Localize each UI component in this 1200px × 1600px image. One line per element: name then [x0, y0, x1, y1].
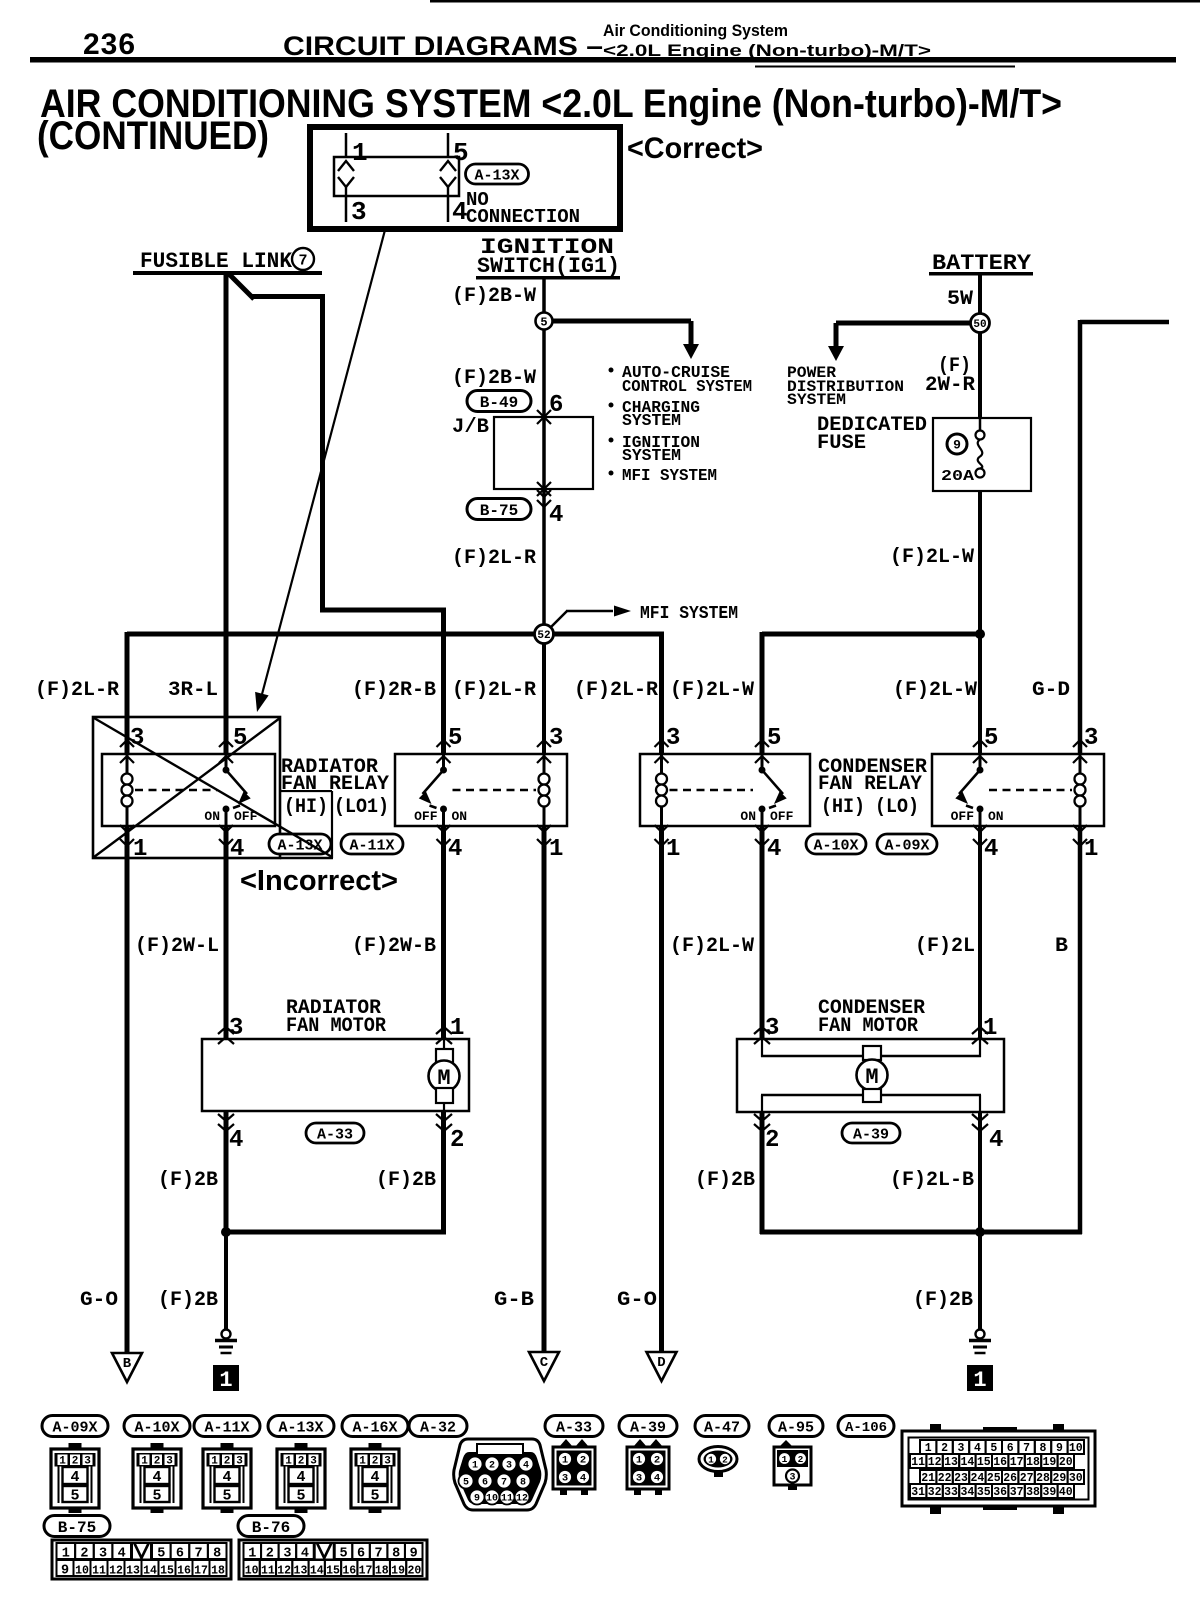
svg-text:CIRCUIT DIAGRAMS –: CIRCUIT DIAGRAMS –: [283, 31, 603, 61]
svg-text:2: 2: [489, 1461, 495, 1472]
bus ignition feed left: [127, 632, 536, 637]
svg-text:2: 2: [72, 1456, 79, 1468]
wire relay3 coil down: [659, 826, 664, 1352]
svg-text:6: 6: [549, 392, 563, 419]
wire battery: [978, 275, 982, 418]
svg-text:27: 27: [1020, 1472, 1034, 1485]
svg-text:4: 4: [549, 502, 563, 529]
svg-text:11: 11: [92, 1564, 106, 1577]
connector A-09X: [42, 1416, 108, 1437]
wire relay1 sw to motor: [224, 826, 229, 1039]
ground symbol: [976, 1330, 985, 1339]
svg-text:ON: ON: [740, 809, 756, 824]
svg-text:2: 2: [798, 1454, 804, 1465]
svg-text:B-75: B-75: [58, 1519, 96, 1537]
svg-text:(F)2L-W: (F)2L-W: [670, 935, 754, 958]
svg-text:1: 1: [666, 836, 680, 863]
svg-text:2: 2: [372, 1456, 379, 1468]
svg-text:OFF: OFF: [770, 809, 794, 824]
svg-text:1: 1: [562, 1455, 568, 1467]
svg-text:16: 16: [342, 1564, 356, 1577]
svg-text:14: 14: [960, 1456, 974, 1469]
svg-text:2: 2: [450, 1127, 464, 1154]
earth reference box 1: [213, 1365, 239, 1391]
svg-text:B: B: [123, 1356, 132, 1372]
svg-text:A-106: A-106: [845, 1420, 887, 1436]
svg-text:14: 14: [310, 1564, 324, 1577]
svg-text:D: D: [657, 1355, 665, 1371]
svg-text:(F)2B: (F)2B: [158, 1169, 218, 1192]
label B-75: [467, 499, 531, 520]
wire relay3 sw to motor: [760, 826, 765, 1039]
svg-text:2: 2: [266, 1547, 274, 1562]
svg-text:6: 6: [357, 1547, 365, 1562]
svg-text:B: B: [1055, 935, 1068, 958]
svg-text:5: 5: [296, 1488, 305, 1505]
svg-text:4: 4: [222, 1469, 231, 1486]
svg-text:9: 9: [1056, 1442, 1063, 1455]
ground symbol: [222, 1330, 231, 1339]
svg-text:(LO1): (LO1): [334, 796, 389, 819]
svg-text:12: 12: [928, 1456, 942, 1469]
relay A-09X switch: [979, 754, 982, 770]
svg-text:(F)2R-B: (F)2R-B: [352, 679, 436, 702]
connector A-39: [619, 1416, 677, 1437]
svg-text:A-39: A-39: [630, 1419, 666, 1436]
svg-text:25: 25: [987, 1472, 1001, 1485]
svg-text:3: 3: [166, 1456, 173, 1468]
svg-text:3: 3: [1084, 725, 1098, 752]
off-page connector triangle D: [647, 1352, 677, 1381]
svg-text:2: 2: [298, 1456, 305, 1468]
wire motor to bus left: [224, 1111, 229, 1232]
svg-text:13: 13: [126, 1564, 140, 1577]
svg-text:B-75: B-75: [480, 502, 518, 520]
svg-text:4: 4: [229, 1127, 243, 1154]
svg-text:9: 9: [953, 438, 961, 453]
connector A-13X: [268, 1416, 334, 1437]
svg-text:A-10X: A-10X: [813, 837, 858, 854]
svg-text:1: 1: [141, 1456, 148, 1468]
svg-text:8: 8: [1040, 1442, 1047, 1455]
bus battery feed: [762, 632, 980, 637]
svg-text:17: 17: [359, 1564, 373, 1577]
relay A-13X incorrect dashed link: [135, 789, 217, 791]
svg-text:3: 3: [130, 725, 144, 752]
svg-text:9: 9: [61, 1563, 69, 1578]
svg-text:6: 6: [176, 1547, 184, 1562]
svg-text:2: 2: [941, 1442, 948, 1455]
svg-text:G-O: G-O: [617, 1289, 657, 1312]
svg-text:(F)2B-W: (F)2B-W: [452, 285, 536, 308]
svg-text:18: 18: [211, 1564, 225, 1577]
svg-text:MFI SYSTEM: MFI SYSTEM: [622, 467, 717, 486]
svg-text:5: 5: [222, 1488, 231, 1505]
svg-text:A-39: A-39: [853, 1126, 889, 1143]
svg-text:1: 1: [59, 1456, 66, 1468]
svg-text:5: 5: [453, 138, 469, 168]
svg-text:9: 9: [474, 1494, 480, 1505]
svg-text:(F)2W-B: (F)2W-B: [352, 935, 436, 958]
svg-text:CONTROL SYSTEM: CONTROL SYSTEM: [622, 378, 752, 397]
svg-text:14: 14: [143, 1564, 157, 1577]
svg-text:8: 8: [520, 1478, 526, 1489]
svg-text:23: 23: [954, 1472, 968, 1485]
svg-text:10: 10: [1069, 1442, 1083, 1455]
svg-text:12: 12: [109, 1564, 123, 1577]
svg-text:20: 20: [1059, 1456, 1073, 1469]
svg-text:1: 1: [472, 1461, 478, 1472]
branch arrow to systems list: [552, 319, 691, 324]
cross-out X: [94, 718, 332, 857]
svg-text:1: 1: [211, 1456, 218, 1468]
svg-text:10: 10: [486, 1494, 498, 1505]
svg-text:(F)2L-B: (F)2L-B: [890, 1169, 974, 1192]
svg-text:J/B: J/B: [452, 416, 489, 439]
systems list: [609, 368, 614, 373]
svg-text:31: 31: [911, 1486, 925, 1499]
relay A-11X switch: [442, 754, 445, 770]
svg-text:3: 3: [506, 1461, 512, 1472]
svg-text:52: 52: [537, 630, 550, 642]
svg-text:4: 4: [296, 1469, 305, 1486]
relay A-10X dashed link: [670, 789, 754, 791]
svg-text:2W-R: 2W-R: [925, 374, 975, 397]
relay A-13X incorrect box: [102, 754, 275, 826]
svg-text:5: 5: [152, 1488, 161, 1505]
svg-text:38: 38: [1026, 1486, 1040, 1499]
svg-text:32: 32: [928, 1486, 942, 1499]
relay A-11X dashed link: [453, 789, 537, 791]
svg-text:A-11X: A-11X: [349, 837, 394, 854]
label A-09X: [877, 834, 937, 854]
svg-text:ON: ON: [204, 809, 220, 824]
svg-text:8: 8: [392, 1547, 400, 1562]
correct connector box A-13X: [310, 127, 620, 229]
svg-text:(HI): (HI): [821, 796, 865, 819]
svg-text:4: 4: [301, 1547, 309, 1562]
svg-text:(LO): (LO): [875, 796, 919, 819]
svg-text:4: 4: [152, 1469, 161, 1486]
svg-text:10: 10: [75, 1564, 89, 1577]
svg-text:FUSE: FUSE: [817, 432, 866, 455]
svg-text:A-11X: A-11X: [204, 1419, 249, 1436]
svg-text:33: 33: [944, 1486, 958, 1499]
svg-text:(F)2L: (F)2L: [915, 935, 975, 958]
svg-text:1: 1: [248, 1547, 256, 1562]
bus ignition feed right: [552, 632, 664, 637]
svg-text:1: 1: [549, 836, 563, 863]
svg-text:6: 6: [1007, 1442, 1014, 1455]
svg-text:1: 1: [782, 1454, 788, 1465]
svg-text:MFI SYSTEM: MFI SYSTEM: [640, 604, 738, 624]
svg-text:FUSIBLE LINK: FUSIBLE LINK: [140, 249, 293, 274]
svg-text:B-76: B-76: [252, 1519, 290, 1537]
svg-text:A-13X: A-13X: [474, 167, 519, 184]
svg-text:A-09X: A-09X: [52, 1419, 97, 1436]
wire relay2 sw to motor: [441, 826, 446, 1039]
svg-text:(F)2L-R: (F)2L-R: [452, 679, 536, 702]
svg-text:A-09X: A-09X: [884, 837, 929, 854]
svg-text:13: 13: [294, 1564, 308, 1577]
relay A-13X incorrect switch: [225, 754, 228, 770]
motor M symbol: [443, 1039, 445, 1050]
svg-text:M: M: [865, 1065, 878, 1090]
svg-text:18: 18: [1026, 1456, 1040, 1469]
wire to ground right: [978, 1232, 982, 1330]
wire fusible link branch: [228, 273, 254, 299]
svg-text:<Incorrect>: <Incorrect>: [240, 865, 398, 897]
svg-text:5: 5: [370, 1488, 379, 1505]
svg-text:5: 5: [463, 1478, 469, 1489]
connector A-32: [409, 1416, 467, 1437]
svg-text:FAN MOTOR: FAN MOTOR: [286, 1015, 386, 1038]
svg-text:19: 19: [1042, 1456, 1056, 1469]
svg-text:A-13X: A-13X: [278, 1419, 323, 1436]
svg-text:(F)2L-R: (F)2L-R: [574, 679, 658, 702]
svg-text:CONNECTION: CONNECTION: [466, 206, 580, 228]
relay A-13X incorrect coil: [126, 754, 129, 775]
svg-text:FAN RELAY: FAN RELAY: [281, 773, 389, 796]
svg-text:<Correct>: <Correct>: [627, 132, 763, 165]
svg-text:1: 1: [1084, 836, 1098, 863]
svg-text:34: 34: [960, 1486, 974, 1499]
svg-text:ON: ON: [988, 809, 1004, 824]
junction circle 50: [971, 314, 990, 333]
svg-text:3: 3: [636, 1473, 642, 1485]
svg-text:A-95: A-95: [778, 1419, 814, 1436]
wire fusible link down: [224, 273, 229, 753]
svg-text:3: 3: [549, 725, 563, 752]
svg-text:1: 1: [925, 1442, 932, 1455]
connector A-11X: [194, 1416, 260, 1437]
svg-text:16: 16: [993, 1456, 1007, 1469]
svg-text:5W: 5W: [947, 288, 973, 311]
svg-text:2: 2: [765, 1127, 779, 1154]
relay A-09X box: [932, 754, 1104, 826]
svg-text:A-13X: A-13X: [277, 837, 322, 854]
label A-10X: [806, 834, 866, 854]
svg-text:3: 3: [283, 1547, 291, 1562]
fuse element: [979, 418, 982, 431]
connector A-106: [838, 1416, 894, 1437]
svg-text:SYSTEM: SYSTEM: [787, 391, 846, 409]
connector B-76: [238, 1516, 304, 1537]
connector A-47: [695, 1416, 749, 1437]
svg-text:19: 19: [391, 1564, 405, 1577]
svg-text:B-49: B-49: [480, 394, 518, 412]
junction circle 52 + MFI arrow: [549, 611, 567, 629]
svg-text:7: 7: [1023, 1442, 1030, 1455]
label A-13X: [466, 164, 529, 184]
svg-text:FAN MOTOR: FAN MOTOR: [818, 1015, 918, 1038]
svg-text:3: 3: [99, 1547, 107, 1562]
svg-text:2: 2: [154, 1456, 161, 1468]
svg-text:1: 1: [62, 1547, 70, 1562]
svg-text:39: 39: [1042, 1486, 1056, 1499]
svg-text:Air Conditioning System: Air Conditioning System: [603, 22, 788, 40]
svg-text:11: 11: [501, 1494, 513, 1505]
svg-text:2: 2: [224, 1456, 231, 1468]
svg-text:3: 3: [562, 1473, 568, 1485]
svg-text:(CONTINUED): (CONTINUED): [37, 114, 269, 158]
svg-text:9: 9: [410, 1547, 418, 1562]
connector A-16X: [342, 1416, 408, 1437]
svg-text:15: 15: [160, 1564, 174, 1577]
svg-text:(F)2B: (F)2B: [158, 1289, 218, 1312]
wire relay4 sw to motor: [978, 826, 982, 1039]
svg-text:5: 5: [448, 725, 462, 752]
svg-text:OFF: OFF: [951, 809, 975, 824]
svg-text:(F)2W-L: (F)2W-L: [135, 935, 219, 958]
page header: [430, 0, 1200, 3]
relay A-10X box: [640, 754, 810, 826]
svg-text:30: 30: [1069, 1472, 1083, 1485]
svg-text:3: 3: [310, 1456, 317, 1468]
svg-text:4: 4: [989, 1127, 1003, 1154]
svg-text:29: 29: [1052, 1472, 1066, 1485]
svg-text:3: 3: [351, 197, 367, 227]
svg-text:4: 4: [974, 1442, 981, 1455]
svg-text:20: 20: [407, 1564, 421, 1577]
svg-text:3: 3: [384, 1456, 391, 1468]
svg-text:18: 18: [375, 1564, 389, 1577]
junction block J/B: [494, 417, 593, 489]
svg-text:10: 10: [245, 1564, 259, 1577]
svg-text:(F)2L-W: (F)2L-W: [670, 679, 754, 702]
svg-text:G-B: G-B: [494, 1289, 534, 1312]
svg-text:3: 3: [236, 1456, 243, 1468]
svg-text:3: 3: [789, 1473, 795, 1484]
svg-text:22: 22: [938, 1472, 952, 1485]
label A-13X (crossed): [269, 834, 331, 854]
wire relay4 coil down: [1078, 826, 1083, 1234]
svg-text:3: 3: [958, 1442, 965, 1455]
relay A-09X coil: [1079, 754, 1082, 775]
svg-text:2: 2: [654, 1455, 660, 1467]
label A-39: [842, 1123, 900, 1143]
svg-text:2: 2: [580, 1455, 586, 1467]
off-page connector triangle C: [529, 1352, 559, 1381]
svg-text:15: 15: [326, 1564, 340, 1577]
svg-text:(F)2L-R: (F)2L-R: [35, 679, 119, 702]
svg-text:G-D: G-D: [1032, 679, 1070, 702]
svg-text:7: 7: [375, 1547, 383, 1562]
svg-text:16: 16: [177, 1564, 191, 1577]
relay A-09X dashed link: [989, 789, 1072, 791]
svg-text:1: 1: [359, 1456, 366, 1468]
svg-text:1: 1: [219, 1368, 232, 1393]
svg-text:17: 17: [194, 1564, 208, 1577]
incorrect relay outer box: [93, 717, 280, 858]
svg-text:5: 5: [984, 725, 998, 752]
off-page connector triangle B: [112, 1353, 142, 1382]
svg-text:5: 5: [70, 1488, 79, 1505]
svg-text:12: 12: [277, 1564, 291, 1577]
svg-text:17: 17: [1010, 1456, 1024, 1469]
connector A-33: [545, 1416, 603, 1437]
svg-text:8: 8: [213, 1547, 221, 1562]
svg-text:(F)2L-W: (F)2L-W: [893, 679, 977, 702]
svg-text:21: 21: [921, 1472, 935, 1485]
svg-text:24: 24: [970, 1472, 984, 1485]
svg-text:A-16X: A-16X: [352, 1419, 397, 1436]
svg-text:(F)2B: (F)2B: [376, 1169, 436, 1192]
svg-text:A-33: A-33: [317, 1126, 353, 1143]
svg-text:OFF: OFF: [414, 809, 438, 824]
svg-text:4: 4: [370, 1469, 379, 1486]
wire ignition: [542, 279, 546, 634]
svg-text:SWITCH(IG1): SWITCH(IG1): [477, 254, 620, 279]
svg-text:28: 28: [1036, 1472, 1050, 1485]
right page wire corner: [1080, 320, 1169, 325]
svg-text:4: 4: [984, 836, 998, 863]
power distribution arrow: [836, 321, 972, 326]
svg-text:2: 2: [80, 1547, 88, 1562]
svg-text:236: 236: [83, 28, 136, 61]
svg-text:1: 1: [285, 1456, 292, 1468]
connector A-10X: [124, 1416, 190, 1437]
svg-text:37: 37: [1010, 1486, 1024, 1499]
svg-text:4: 4: [767, 836, 781, 863]
svg-text:15: 15: [977, 1456, 991, 1469]
svg-text:SYSTEM: SYSTEM: [622, 412, 681, 431]
svg-text:4: 4: [448, 836, 462, 863]
earth reference box 1: [967, 1365, 993, 1391]
svg-text:11: 11: [911, 1456, 925, 1469]
svg-text:5: 5: [990, 1442, 997, 1455]
svg-text:G-O: G-O: [80, 1289, 118, 1312]
svg-text:6: 6: [482, 1478, 488, 1489]
svg-text:5: 5: [339, 1547, 347, 1562]
svg-text:20A: 20A: [941, 468, 974, 485]
svg-text:4: 4: [580, 1473, 586, 1485]
svg-text:12: 12: [516, 1494, 528, 1505]
svg-text:26: 26: [1003, 1472, 1017, 1485]
svg-text:3: 3: [666, 725, 680, 752]
svg-text:(F)2L-W: (F)2L-W: [890, 546, 974, 569]
svg-text:11: 11: [261, 1564, 275, 1577]
svg-text:1: 1: [133, 836, 147, 863]
relay A-11X coil: [543, 754, 546, 775]
svg-text:4: 4: [70, 1469, 79, 1486]
relay A-10X coil: [660, 754, 663, 775]
wire 52 to relay2 coil: [542, 643, 546, 754]
svg-text:5: 5: [540, 315, 547, 329]
label A-33: [306, 1123, 364, 1143]
svg-text:A-10X: A-10X: [134, 1419, 179, 1436]
svg-text:(F)2B-W: (F)2B-W: [452, 367, 536, 390]
svg-text:A-32: A-32: [420, 1419, 456, 1436]
wire to ground left: [224, 1232, 228, 1330]
svg-text:36: 36: [993, 1486, 1007, 1499]
svg-text:1: 1: [708, 1455, 714, 1466]
arrow pointing to incorrect relay: [261, 230, 385, 698]
wire battery below fuse: [978, 491, 982, 754]
svg-text:1: 1: [636, 1455, 642, 1467]
connector B-75: [44, 1516, 110, 1537]
svg-text:C: C: [540, 1355, 549, 1371]
svg-text:4: 4: [230, 836, 244, 863]
connector A-95: [769, 1416, 823, 1437]
svg-text:A-33: A-33: [556, 1419, 592, 1436]
svg-text:(F)2B: (F)2B: [695, 1169, 755, 1192]
svg-text:A-47: A-47: [704, 1419, 740, 1436]
svg-text:3R-L: 3R-L: [168, 679, 218, 702]
svg-text:5: 5: [157, 1547, 165, 1562]
svg-text:7: 7: [501, 1478, 507, 1489]
relay A-11X box: [395, 754, 567, 826]
